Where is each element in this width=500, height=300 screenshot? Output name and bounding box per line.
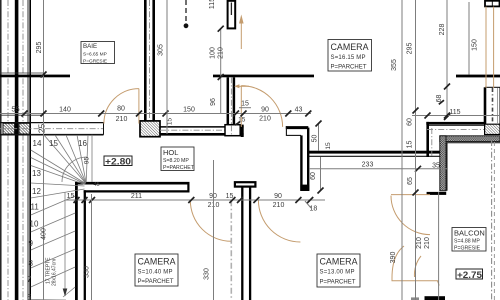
level marker +2.75: [456, 269, 483, 281]
svg-text:90: 90: [261, 106, 269, 113]
svg-text:10: 10: [30, 220, 39, 229]
svg-text:60: 60: [407, 118, 414, 126]
pier foot block: [225, 125, 240, 136]
svg-text:11: 11: [31, 203, 40, 212]
dim vertical 60 at x320.5 lower: [310, 157, 324, 194]
svg-text:43: 43: [295, 106, 303, 113]
dim vertical 355/390 line at x402: [402, 0, 414, 300]
svg-text:14: 14: [33, 139, 42, 148]
svg-text:P=PARCHET: P=PARCHET: [331, 65, 367, 71]
wire: left facade outer face line: [0, 0, 2, 300]
svg-text:15: 15: [407, 141, 414, 149]
dim vertical 50/15 at x318: [312, 121, 333, 152]
svg-text:15: 15: [238, 117, 246, 124]
svg-text:15: 15: [167, 118, 174, 126]
hatched wall block left 2: [19, 123, 30, 134]
wall: top-middle horizontal wall (x213-314): [213, 75, 314, 78]
dim vertical 150 at x469: [469, 2, 479, 75]
dim 18 with slanted leader: [305, 201, 317, 213]
dim vertical 330 at x91.5: [84, 194, 92, 300]
dim vertical chain at x415.5 (295,60,15,65,210): [407, 0, 419, 300]
door HOL to CAMERA10 (left, 90/210): [190, 200, 231, 300]
svg-text:BALCON: BALCON: [454, 229, 485, 238]
svg-text:228: 228: [439, 24, 446, 36]
wall: top-left horizontal wall of stair void: [0, 72, 44, 74]
svg-text:15: 15: [241, 101, 249, 108]
svg-text:115: 115: [209, 0, 216, 9]
svg-text:BAIE: BAIE: [83, 43, 97, 50]
door jamb at BAIE door west side: [103, 123, 105, 135]
axis line left wall B: [22, 0, 24, 300]
svg-text:S=13.00 MP: S=13.00 MP: [320, 270, 355, 276]
balcony door leaf and arc: [391, 195, 430, 235]
small gray sill piece: [411, 297, 419, 300]
svg-text:9: 9: [29, 239, 34, 248]
svg-text:15: 15: [325, 142, 332, 150]
stair winder arc: [62, 157, 87, 182]
room label CAMERA 13.00: [317, 254, 360, 287]
svg-text:35: 35: [432, 163, 440, 170]
axis line left wall A: [7, 0, 9, 300]
svg-text:140: 140: [59, 106, 71, 113]
window at top right corner: [485, 1, 500, 7]
svg-text:S=6.65 MP: S=6.65 MP: [83, 52, 107, 58]
stair walk line vertical: [64, 192, 66, 296]
section axis dashed with dot marker: [184, 0, 189, 28]
top-right wall above balcony (x425-500): [426, 100, 500, 157]
svg-text:15: 15: [49, 139, 58, 148]
svg-text:400: 400: [41, 228, 48, 240]
svg-text:100: 100: [210, 47, 217, 59]
wall: vertical wall between HOL and CAMERA 13 (x300-310): [300, 128, 309, 191]
svg-text:305: 305: [158, 44, 165, 56]
svg-text:15: 15: [67, 193, 75, 200]
svg-text:150: 150: [472, 39, 479, 51]
small dim 15 above pier with leader: [167, 101, 252, 126]
wall: BAIE south wall band (y 122.6-134.6): [0, 122, 104, 124]
balcony south black sill piece: [425, 296, 446, 300]
door HOL to CAMERA13 (right, 90/210): [258, 200, 300, 242]
dim texts on y113.5 line: [11, 105, 302, 123]
balcony wall end cap (black): [427, 192, 447, 195]
svg-text:S=16.15 MP: S=16.15 MP: [331, 55, 366, 61]
svg-text:25: 25: [36, 124, 46, 134]
door at window pier (90/210) leaf and arc: [234, 84, 282, 127]
svg-text:HOL: HOL: [163, 148, 178, 157]
svg-text:P=GRESIE: P=GRESIE: [454, 246, 481, 252]
axis line horizontal through BAIE south wall: [0, 128, 104, 130]
svg-text:+2.75: +2.75: [457, 270, 483, 281]
svg-text:60: 60: [310, 172, 317, 180]
svg-text:12: 12: [32, 187, 41, 196]
stair treads lower flight: [31, 196, 75, 300]
stair tread numbers: [27, 139, 87, 300]
tan direction arrow top: [239, 15, 244, 50]
svg-text:150: 150: [183, 106, 195, 113]
stair treads upper winders: [31, 135, 88, 198]
svg-text:P=PARCHET: P=PARCHET: [163, 165, 195, 171]
stair annotation 17 trepte 28x16,47cm: [46, 257, 58, 286]
wall: T-pier between the two doors: [235, 182, 256, 300]
wall: HOL north wall segment B (x160-243.6): [160, 126, 244, 128]
dim vertical 295/400 line at x43.5: [36, 0, 48, 300]
svg-text:50: 50: [312, 135, 319, 143]
wall: BAIE east wall (double line with axis): [144, 0, 147, 122]
wall: HOL north wall segment C + corner (x285.5-310): [286, 126, 309, 136]
dim line horizontal y200 (doors row): [66, 197, 325, 203]
svg-text:15: 15: [226, 193, 234, 200]
wall: top-right horizontal wall (x456-500): [456, 75, 500, 78]
svg-text:210: 210: [416, 237, 423, 249]
hatched block top right: [485, 124, 500, 134]
balcony north wall (stippled): [440, 136, 500, 142]
svg-text:CAMERA: CAMERA: [320, 257, 359, 268]
svg-text:295: 295: [407, 43, 414, 55]
svg-text:210: 210: [116, 116, 128, 123]
svg-text:68: 68: [436, 95, 443, 103]
svg-text:233: 233: [362, 162, 374, 169]
window symbol in top wall (100/210): [228, 1, 236, 29]
svg-text:330: 330: [84, 266, 91, 278]
dim 233 / 35 line y168.8: [309, 162, 447, 172]
balcony west wall (stippled): [440, 136, 446, 191]
dim texts on y200 line: [67, 193, 285, 209]
axis line in HOL north wall: [160, 129, 240, 131]
room label BALCON: [452, 228, 486, 252]
svg-text:355: 355: [391, 59, 398, 71]
dim vertical window 100/210 + 96 line at x220.7: [210, 26, 225, 114]
svg-text:210: 210: [259, 116, 271, 123]
dim vertical 228/68 at x447: [436, 0, 450, 120]
stair edge line right of winders: [91, 135, 93, 182]
room label BAIE: [81, 42, 115, 65]
room label CAMERA 16.15: [328, 40, 372, 72]
tan frame lines below top-right window: [486, 7, 494, 88]
svg-text:P=PARCHET: P=PARCHET: [320, 280, 356, 286]
dim vertical 330 at x213.5: [204, 160, 214, 300]
svg-text:45: 45: [94, 182, 100, 188]
wall: CAMERA13 north wall (x309-440): [309, 151, 440, 157]
svg-text:P=PARCHET: P=PARCHET: [138, 279, 174, 285]
svg-text:295: 295: [36, 42, 43, 54]
svg-text:210: 210: [273, 202, 285, 209]
svg-text:65: 65: [407, 177, 414, 185]
svg-text:18: 18: [310, 206, 318, 213]
svg-text:55: 55: [11, 105, 19, 114]
svg-text:16: 16: [78, 139, 87, 148]
svg-text:CAMERA: CAMERA: [331, 42, 370, 53]
svg-text:+2.80: +2.80: [105, 156, 131, 167]
tan leader for 210/210 balcony door label: [392, 246, 439, 286]
wall: left inner face double line: [27, 0, 29, 300]
dim vertical 305 line at x167: [158, 0, 168, 134]
svg-text:211: 211: [131, 193, 142, 200]
svg-text:115: 115: [449, 109, 460, 116]
svg-text:6: 6: [27, 293, 32, 300]
svg-text:330: 330: [204, 268, 211, 280]
right edge dashed boundary lines: [492, 140, 495, 300]
svg-text:210: 210: [424, 237, 431, 249]
balcony inner face lines: [446, 143, 500, 191]
svg-text:210: 210: [218, 47, 225, 59]
wall: HOL south wall / stair east wall: [75, 182, 190, 300]
svg-text:28x16,47cm: 28x16,47cm: [52, 259, 58, 286]
svg-text:P=GRESIE: P=GRESIE: [83, 59, 107, 65]
svg-text:S=4.88 MP: S=4.88 MP: [454, 239, 480, 245]
dim vertical 210 at x438.6: [424, 192, 438, 300]
wall: left structural core: [15, 0, 19, 300]
svg-text:90: 90: [274, 193, 282, 200]
svg-text:95: 95: [84, 157, 91, 165]
svg-text:S=10.40 MP: S=10.40 MP: [138, 270, 173, 276]
svg-text:CAMERA: CAMERA: [138, 257, 177, 268]
door BAIE leaf and swing arc 80/210: [104, 89, 139, 124]
dim horizontal 115 at y116.5: [412, 109, 500, 119]
window pier column (x228-236, y77-133): [228, 77, 234, 133]
pier right edge with hatch (x484-500, y87-124): [485, 87, 500, 124]
room label CAMERA 10.40: [135, 254, 178, 286]
dim line horizontal y113.5: [0, 111, 311, 117]
svg-text:S=8.20 MP: S=8.20 MP: [163, 158, 189, 164]
hatched wall block left 1: [3, 123, 15, 134]
room label HOL: [161, 147, 195, 171]
svg-text:7: 7: [27, 275, 32, 284]
svg-text:96: 96: [210, 98, 217, 106]
svg-text:8: 8: [29, 259, 34, 268]
svg-text:80: 80: [117, 105, 125, 112]
svg-text:13: 13: [32, 169, 41, 178]
level marker +2.80: [104, 156, 132, 167]
hatched pier at BAIE east wall foot: [140, 121, 160, 137]
svg-text:390: 390: [390, 252, 397, 264]
